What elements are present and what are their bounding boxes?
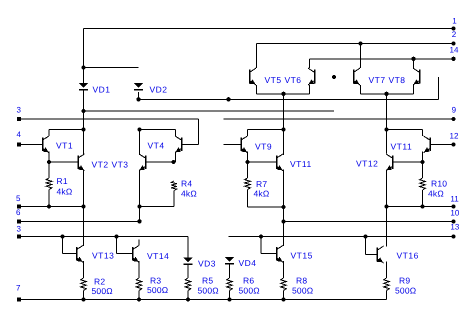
resistor R8 [281, 278, 287, 291]
transistor VT3 [145, 156, 147, 170]
wire VT7-VT8 emitter rail [361, 93, 414, 95]
wire lower pin3 rail [19, 236, 188, 238]
wire VT14 base L [116, 237, 118, 254]
svg-text:500Ω: 500Ω [395, 286, 416, 296]
resistor R7 top lead [247, 162, 249, 178]
resistor R10 [420, 178, 426, 190]
wire VT9 collector riser [247, 130, 249, 137]
node pin6 line end at VT3 emitter [137, 219, 141, 223]
svg-text:4: 4 [17, 130, 22, 139]
wire pin 3 line [19, 118, 199, 120]
svg-text:500Ω: 500Ω [147, 285, 168, 295]
resistor R5 [185, 278, 191, 291]
node pin10 takeoff [281, 219, 285, 223]
node R4 line on VT3 emitter [137, 205, 141, 209]
svg-text:4kΩ: 4kΩ [181, 189, 197, 199]
svg-text:3: 3 [17, 106, 22, 115]
node R5 bottom [186, 297, 190, 301]
resistor R3 [136, 278, 142, 291]
transistor VT11 middle [276, 156, 278, 170]
resistor R4 (floating top) [171, 181, 177, 191]
node VT12 base / R10 node [420, 160, 424, 164]
node VD1-rail junction [81, 109, 85, 113]
svg-text:1: 1 [452, 17, 457, 26]
wire pin 6 line [19, 220, 140, 222]
svg-text:VD3: VD3 [198, 259, 216, 269]
svg-text:13: 13 [450, 223, 459, 232]
transistor VT9 [240, 138, 242, 152]
svg-text:VT11: VT11 [391, 142, 413, 152]
wire pin 10 line [284, 221, 454, 223]
transistor VT15 [276, 247, 278, 261]
svg-text:VT11: VT11 [290, 159, 312, 169]
svg-text:R7: R7 [256, 179, 267, 189]
wire rail to pin 14 [310, 58, 454, 60]
node VT1 emitter node [47, 160, 51, 164]
svg-text:500Ω: 500Ω [292, 286, 313, 296]
wire VT2 collector riser [83, 130, 85, 156]
wire VT4 collector riser [175, 130, 177, 137]
transistor VT2 [77, 156, 79, 170]
node R3 bottom [137, 297, 141, 301]
resistor R4 bottom lead [173, 191, 175, 207]
node pin11 on VT12 emitter [384, 204, 388, 208]
svg-text:14: 14 [450, 46, 459, 55]
pin 9 wire [224, 118, 454, 120]
node VT13 base feed [60, 234, 64, 238]
resistor R1 [46, 178, 52, 190]
node stub on VD1 branch [81, 65, 85, 69]
wire bottom rail [19, 299, 387, 301]
resistor R3 bottom lead [138, 291, 140, 300]
wire stub VD1 node to VD2 [84, 67, 139, 69]
diode VD2 [134, 83, 143, 88]
node VT16 base feed [363, 234, 367, 238]
wire rail F [84, 110, 335, 112]
wire VT15 base L [260, 237, 262, 254]
svg-text:R6: R6 [243, 276, 254, 286]
wire VT5-VT6 emitter rail [257, 93, 310, 95]
resistor R7 bottom lead [247, 190, 249, 208]
svg-text:VT15: VT15 [291, 251, 313, 261]
wire V+ rail top (pin 1) [84, 28, 454, 30]
node VT14 base feed [114, 234, 118, 238]
svg-text:VT5 VT6: VT5 VT6 [265, 75, 302, 85]
wire VD4 cathode lead [229, 265, 231, 278]
node VT1/VT2 collector junction [81, 127, 85, 131]
node VT8 collector on pin14 rail [411, 57, 415, 61]
wire VT14 collector stub [138, 240, 140, 246]
node R2 bottom [81, 297, 85, 301]
wire VT7 emitter drop [360, 85, 362, 94]
svg-text:4kΩ: 4kΩ [254, 189, 270, 199]
diode VD4 (floating anode) [225, 257, 234, 262]
transistor VT13 [76, 247, 78, 261]
svg-text:VD1: VD1 [93, 85, 111, 95]
node tap on bias rail [226, 97, 230, 101]
transistor VT1 [42, 138, 44, 152]
node pin5 line end [81, 204, 85, 208]
wire VT9 base stub [224, 144, 242, 146]
svg-text:4kΩ: 4kΩ [428, 189, 444, 199]
svg-text:VT1: VT1 [56, 141, 73, 151]
svg-text:R10: R10 [431, 179, 447, 189]
svg-text:VD4: VD4 [239, 258, 257, 268]
wire VT5 emitter drop [256, 85, 258, 94]
resistor R6 [227, 278, 233, 291]
wire VT9 collector rail [248, 129, 284, 131]
node isolated junction between pairs [332, 75, 336, 79]
node VT3 base / R4 node [171, 160, 175, 164]
transistor VT8 [419, 70, 421, 84]
wire R7 bottom to VT11 emitter [248, 206, 284, 208]
node VT15 base feed [259, 234, 263, 238]
wire VT11r emitter drop [422, 152, 424, 163]
wire mid rail to pin 13 [229, 236, 454, 238]
resistor R7 [245, 178, 251, 190]
svg-text:12: 12 [450, 132, 459, 141]
wire VT15 emitter drop [283, 261, 285, 278]
resistor R10 top lead [422, 162, 424, 178]
wire VD1 cathode down to node rail [83, 91, 85, 130]
node R10 bottom on pin11 line [420, 204, 424, 208]
wire center tap down the long right column [386, 94, 388, 154]
svg-text:VT13: VT13 [92, 251, 114, 261]
wire VT4 base lead [182, 144, 199, 146]
wire VT3 emitter drop [139, 170, 141, 222]
wire VT3 collector riser [139, 130, 141, 156]
transistor VT11 right [429, 138, 431, 152]
svg-text:2: 2 [452, 30, 457, 39]
resistor R2 bottom lead [83, 291, 85, 300]
diode VD3 [184, 258, 193, 263]
node R1 bottom on pin5 line [47, 204, 51, 208]
wire VT16 emitter drop [386, 262, 388, 278]
wire VT1 collector rail [48, 130, 50, 132]
svg-text:10: 10 [450, 209, 459, 218]
wire pin 5 line [19, 206, 84, 208]
transistor VT14 [132, 247, 134, 261]
node on collector rail right [384, 127, 388, 131]
svg-text:VD2: VD2 [150, 85, 168, 95]
svg-text:VT7 VT8: VT7 VT8 [369, 75, 406, 85]
wire bias rail E [139, 98, 439, 100]
transistor VT6 [314, 70, 316, 84]
wire VT13 emitter drop [83, 261, 85, 278]
svg-text:VT2 VT3: VT2 VT3 [92, 160, 129, 170]
svg-text:VT12: VT12 [356, 159, 378, 169]
svg-text:VT14: VT14 [147, 251, 169, 261]
wire VT16 base L [365, 237, 367, 255]
wire VT9 emitter drop [247, 152, 249, 163]
wire VT11 emitter long drop to VT15 [283, 170, 285, 247]
transistor VT4 [181, 138, 183, 152]
svg-text:3: 3 [17, 225, 22, 234]
svg-text:R4: R4 [181, 179, 192, 189]
svg-text:4kΩ: 4kΩ [57, 187, 73, 197]
svg-text:VT9: VT9 [255, 142, 272, 152]
wire R4 bottom to VT3 emitter [140, 206, 175, 208]
wire VT14 emitter drop [138, 261, 140, 278]
wire pin3 corner down to VT4 base [198, 119, 200, 145]
node R7 on VT11 emitter [281, 205, 285, 209]
resistor R9 bottom lead [386, 291, 388, 300]
wire VT11r collector riser [422, 130, 424, 137]
wire VT2 emitter long drop to VT13 [83, 170, 85, 247]
wire pin 12 line [430, 144, 454, 146]
transistor VT16 [376, 248, 378, 262]
wire VD3 cathode lead [187, 265, 189, 278]
node VT9 emitter node [245, 160, 249, 164]
transistor VT12 [392, 156, 394, 170]
svg-text:500Ω: 500Ω [198, 286, 219, 296]
resistor R6 bottom lead [229, 291, 231, 300]
wire VT9 emitter to VT11 base [248, 161, 277, 163]
svg-text:R2: R2 [94, 277, 105, 287]
wire VT12 base lead [393, 161, 423, 163]
svg-text:11: 11 [450, 195, 459, 204]
wire VT1 emitter drop [48, 152, 50, 163]
transistor VT5 [249, 70, 251, 84]
svg-text:VT4: VT4 [148, 141, 165, 151]
wire VT8 emitter drop [413, 85, 415, 94]
node VT3/VT4 collector junction [137, 127, 141, 131]
svg-text:5: 5 [16, 194, 21, 203]
resistor R8 bottom lead [283, 291, 285, 300]
wire VT6 collector riser [309, 59, 311, 68]
wire VT12 emitter long drop to VT16 [386, 170, 388, 247]
node VT9/VT11 collector junction [281, 127, 285, 131]
transistor VT7 [353, 70, 355, 84]
wire collector rail right [387, 129, 423, 131]
resistor R5 bottom lead [187, 291, 189, 300]
node VT7 collector on pin2 rail [358, 41, 362, 45]
svg-text:6: 6 [16, 208, 21, 217]
svg-text:R9: R9 [399, 276, 410, 286]
svg-text:R5: R5 [202, 276, 213, 286]
wire VT6 emitter drop [309, 85, 311, 94]
wire VD1 branch vertical [83, 29, 85, 84]
resistor R1 top lead [48, 162, 50, 178]
wire rail corner down to VD3 [187, 237, 189, 258]
svg-text:9: 9 [452, 106, 457, 115]
wire VT3-VT4 collector rail [140, 129, 176, 131]
wire VT1 collector riser [48, 130, 50, 137]
wire VT1 emitter to VT2 base [49, 161, 78, 163]
diode VD1 [79, 83, 88, 88]
svg-text:500Ω: 500Ω [92, 286, 113, 296]
wire VD2 cathode lead [138, 92, 140, 99]
wire VT13 base L [62, 237, 64, 254]
node R8 bottom [281, 297, 285, 301]
wire VT3 base lead [146, 161, 174, 163]
svg-text:VT16: VT16 [397, 251, 419, 261]
wire VT4 emitter drop [175, 152, 177, 163]
node R6 bottom [227, 297, 231, 301]
wire pin 4 to VT1 base [19, 144, 43, 146]
svg-text:R8: R8 [296, 276, 307, 286]
wire VT7 collector riser [360, 44, 362, 69]
node VT7-VT8 emitter center tap [384, 92, 388, 96]
wire rail to pin 2 [257, 43, 454, 45]
node VD2 on bias rail [136, 97, 140, 101]
wire VT11 collector riser [283, 94, 285, 155]
svg-text:7: 7 [16, 284, 21, 293]
wire VT5 collector riser [256, 44, 258, 69]
resistor R10 bottom lead [422, 190, 424, 207]
svg-text:R3: R3 [150, 276, 161, 286]
resistor R9 [384, 278, 390, 291]
resistor R1 bottom lead [48, 190, 50, 207]
node VT5-VT6 emitter center tap [281, 92, 285, 96]
wire bias rail E right riser [438, 77, 440, 99]
svg-text:R1: R1 [57, 176, 68, 186]
resistor R2 [81, 278, 87, 291]
wire VT8 collector riser [413, 59, 415, 68]
svg-text:500Ω: 500Ω [239, 286, 260, 296]
wire pin 11 line [387, 206, 454, 208]
